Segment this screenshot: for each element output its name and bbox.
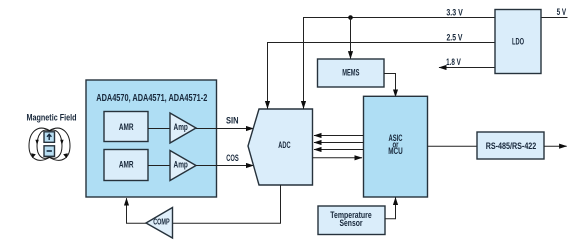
wire ADC to COMP [173,185,281,223]
block ADC [248,109,313,185]
amplifier Amp (top) [170,113,196,143]
svg-text:COMP: COMP [153,218,170,227]
wire Temperature Sensor to ASIC [385,198,396,219]
svg-text:Magnetic Field: Magnetic Field [27,113,77,123]
svg-text:3.3 V: 3.3 V [446,8,462,18]
svg-text:5 V: 5 V [557,7,567,17]
svg-text:Sensor: Sensor [340,218,363,228]
svg-text:Amp: Amp [174,159,189,169]
wire 5V input [541,7,568,18]
block MEMS [318,59,385,87]
wire 1.8V output [439,57,495,68]
magnet south square [44,146,55,157]
wire RS-485 output [544,145,567,147]
wire ASIC to ADC bus line 3 [314,149,364,151]
wire 2.5V rail [268,32,496,108]
svg-text:RS-485/RS-422: RS-485/RS-422 [486,141,537,151]
wire AMR top to Amp top [148,128,170,130]
block RS-485/RS-422 [477,132,544,159]
wire ADC to ASIC data [313,157,363,159]
svg-text:1.8 V: 1.8 V [446,57,461,67]
wire ASIC to RS-485 [428,145,478,147]
svg-text:2.5 V: 2.5 V [447,32,463,42]
svg-text:MCU: MCU [388,146,403,156]
wire COS: Amp bottom to ADC [196,153,254,165]
block ADA4570/ADA4571 group box [86,80,217,197]
block LDO [495,10,541,74]
magnetic field lines [29,128,70,160]
wire ASIC to ADC bus line 1 [314,135,364,137]
block Temperature Sensor [318,206,385,235]
wire 3.3V rail [304,8,496,109]
block AMR (bottom) [104,150,148,181]
svg-text:AMR: AMR [119,122,134,132]
svg-text:AMR: AMR [119,160,134,170]
svg-text:ADC: ADC [278,140,291,150]
svg-text:Amp: Amp [174,122,189,132]
svg-text:COS: COS [226,153,239,163]
wire MEMS to ASIC [384,74,396,97]
junction on 3.3V rail [348,15,353,20]
wire ASIC to ADC bus line 2 [314,142,364,144]
svg-text:LDO: LDO [512,36,524,46]
wire junction to MEMS [350,18,352,59]
amplifier Amp (bottom) [170,151,196,181]
wire COMP to AMR block [127,198,147,223]
svg-text:SIN: SIN [226,116,239,126]
magnetic field arrows [31,140,68,159]
magnetic field label [27,113,77,123]
svg-text:MEMS: MEMS [342,68,359,78]
wire AMR bottom to Amp bottom [148,165,170,167]
comparator COMP [146,208,173,239]
magnet north square [44,132,55,143]
svg-text:ADA4570, ADA4571, ADA4571-2: ADA4570, ADA4571, ADA4571-2 [96,93,207,104]
block ASIC or MCU [364,96,428,197]
wire SIN: Amp top to ADC [196,116,253,129]
block AMR (top) [104,112,148,142]
